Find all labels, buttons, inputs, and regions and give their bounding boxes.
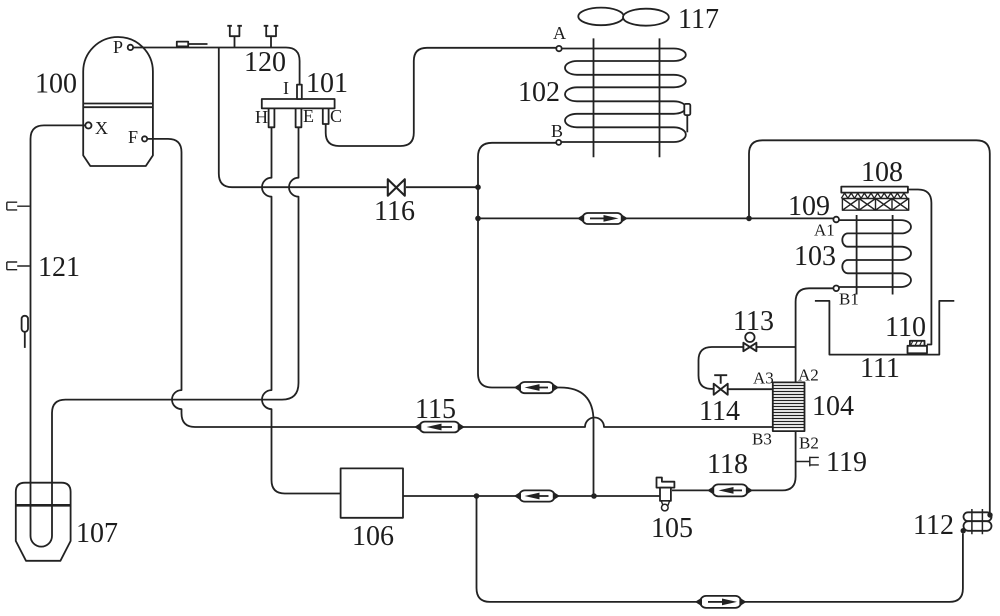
svg-text:100: 100 [35,69,77,100]
heater 108 top plate [841,187,908,193]
junction 112 bottom [961,528,966,533]
svg-text:H: H [255,107,268,127]
wire branch from P line down to valve 116 line [219,48,387,188]
node A1 [833,217,839,223]
evaporator coil 102 [561,49,686,143]
wire bottom loop from junction to 112 [477,496,697,602]
wire C pin loop up to node A [326,48,557,146]
compressor box 106 [341,468,403,517]
node P [128,45,133,50]
wire 108 to pump 110 [908,190,932,345]
pin I [297,85,302,99]
junction 112 top [987,512,992,517]
wire E pin down, via horizontal run to U-tube 107, up to node X [31,125,299,546]
svg-text:117: 117 [678,4,719,35]
wire 106 right to 105 [403,495,660,497]
svg-text:F: F [128,127,138,147]
wire bypass down to liquid line [557,388,593,497]
sensor on P wire [177,42,208,47]
junction at bypass end [591,493,597,499]
svg-text:A1: A1 [814,221,835,240]
pump 110 [908,341,928,354]
one-way valve 115 [416,422,463,433]
svg-text:101: 101 [306,68,348,99]
svg-text:114: 114 [699,396,740,427]
svg-text:119: 119 [826,447,867,478]
condenser coil 103 [839,220,911,287]
svg-text:113: 113 [733,306,774,337]
service port 120 right [264,26,279,48]
svg-text:109: 109 [788,191,830,222]
svg-text:115: 115 [415,394,456,425]
junction on 116 line [475,184,481,190]
expansion valve 105 [657,478,675,511]
heater 108 crossed cells [842,199,908,211]
wire 105 to 118 [672,489,709,491]
svg-text:B: B [551,121,563,141]
svg-text:110: 110 [885,312,926,343]
heat exchange coil 112 [964,509,992,534]
node B1 [833,286,839,292]
wire F pin down to line 115 [147,139,416,427]
svg-text:B2: B2 [799,434,819,453]
heater 108 sawtooth [841,193,907,198]
compressor 101 body bar [262,99,335,108]
wire B2 down to 118 line [751,431,795,490]
junction at 748 [746,216,752,222]
junction right of 106 [474,493,480,499]
wire junction up and across to right edge down to 112 [749,140,990,513]
wire 115 capsule to dryer hop to B3 of 104 [463,418,773,428]
temperature sensor at coil 102 [684,104,690,132]
coil 103 fins [857,215,893,295]
svg-text:118: 118 [707,449,748,480]
liquid level line 107 [16,504,71,507]
svg-text:A: A [553,23,566,43]
pin H [269,108,275,127]
oil trap vessel 107 [16,483,71,561]
wire motor valve 113 branch [699,347,744,389]
service port 120 left [227,26,242,48]
hand valve 114 [714,375,728,395]
svg-text:111: 111 [860,353,900,384]
coil 102 fins [594,38,660,157]
node F [142,136,147,141]
pin E [296,108,302,127]
accumulator tank 100 [83,37,153,166]
fan 117 [578,8,669,26]
svg-text:A2: A2 [798,366,819,385]
svg-text:104: 104 [812,391,854,422]
service stub 121 lower [7,262,30,270]
svg-text:116: 116 [374,196,415,227]
svg-text:106: 106 [352,521,394,552]
svg-text:C: C [330,106,342,126]
node X [85,122,91,128]
node B [556,140,561,145]
svg-text:102: 102 [518,77,560,108]
svg-text:108: 108 [861,157,903,188]
svg-text:P: P [113,37,123,57]
one-way valve 118 [709,484,752,496]
drain stub 119 [796,457,819,467]
junction on A1 line [475,216,481,222]
plate heat exchanger 104 [773,382,805,431]
svg-text:A3: A3 [753,369,774,388]
temperature sensor on X line [22,316,28,348]
node A [556,46,561,51]
one-way valve on bottom loop [697,596,745,608]
wire 114 to A3 [728,388,773,390]
one-way valve on A1 line [579,213,626,224]
wire P to compressor I pin [133,48,300,86]
wire B1 down to A2 of 104 [796,288,834,382]
wire valve116 to vertical junction [406,186,478,188]
motor valve 113 [743,333,756,352]
one-way valve on 106 line [516,490,559,501]
svg-text:103: 103 [794,241,836,272]
wire H pin down to compressor box 106 [262,127,341,493]
svg-text:105: 105 [651,513,693,544]
valve 116 [388,179,405,195]
svg-text:I: I [283,78,289,98]
one-way valve on bypass [516,382,558,393]
pin C [323,108,329,124]
svg-text:X: X [95,118,108,138]
svg-text:121: 121 [38,252,80,283]
svg-text:E: E [303,106,314,126]
service stub 121 upper [7,202,30,210]
wire node B down to bypass loop [478,143,556,388]
svg-text:107: 107 [76,518,118,549]
svg-text:112: 112 [913,510,954,541]
svg-text:120: 120 [244,47,286,78]
svg-text:B1: B1 [839,290,859,309]
water tank 111 [815,301,954,355]
svg-text:B3: B3 [752,430,772,449]
wire junction to A1 [478,217,579,219]
